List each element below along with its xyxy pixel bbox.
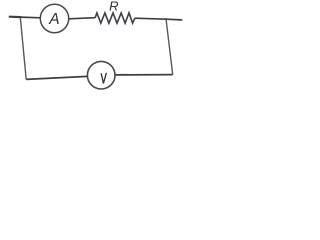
ammeter U1 circle [40, 4, 68, 32]
right terminal lead [166, 18, 182, 21]
wire: left vertical [20, 17, 26, 79]
node: top-right junction [165, 18, 167, 20]
node: top-left junction [19, 16, 21, 18]
svg-text:A: A [48, 11, 59, 28]
wire: bottom-left to voltmeter [26, 76, 87, 79]
wire: right vertical [166, 18, 173, 75]
wire: junction to ammeter [20, 16, 40, 19]
voltmeter U2 circle [87, 61, 115, 89]
left terminal lead [10, 16, 21, 19]
wire: resistor to top-right junction [135, 18, 166, 19]
svg-text:R: R [109, 0, 118, 14]
voltmeter label V [101, 73, 106, 84]
wire: voltmeter to bottom-right corner [115, 74, 173, 76]
wire: ammeter to resistor [69, 18, 95, 19]
resistor R zigzag [95, 13, 135, 23]
